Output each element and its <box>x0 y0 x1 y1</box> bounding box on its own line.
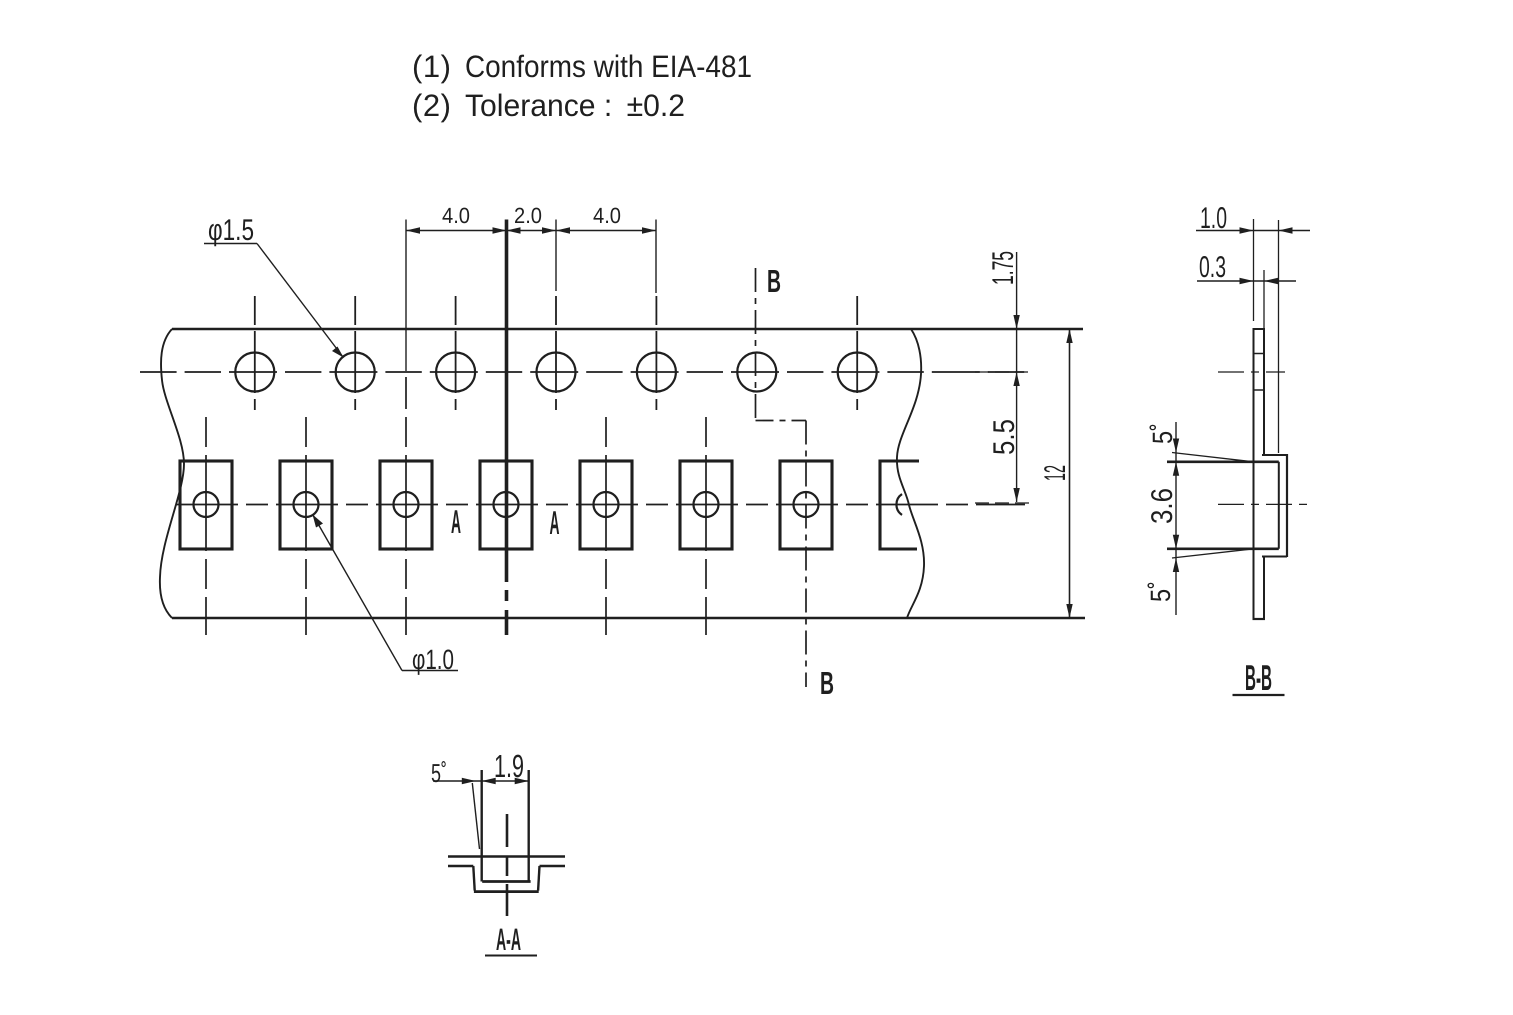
B-B emboss bottom jog <box>1262 556 1287 558</box>
A-A pocket inner bottom <box>482 880 530 883</box>
sprocket hole 2 vertical centerline <box>354 296 356 410</box>
B-B tape back face (lower) <box>1263 557 1265 619</box>
sprocket hole 4 vertical centerline <box>555 296 557 410</box>
svg-text:A: A <box>550 504 560 541</box>
svg-text:5.5: 5.5 <box>988 419 1021 455</box>
B-B draft witness line (bottom 5 deg) <box>1172 549 1254 558</box>
sprocket hole 1 vertical centerline <box>254 296 256 410</box>
B-B cavity bottom wall + extension <box>1167 547 1279 550</box>
sprocket hole 5 vertical centerline <box>655 296 657 410</box>
section line A-A (heavy vertical) <box>505 220 509 583</box>
svg-text:A: A <box>451 503 461 540</box>
right side dimension 1.75 / 5.5 <box>975 252 1031 503</box>
svg-text:12: 12 <box>1039 465 1072 481</box>
pocket 6 vertical centerline <box>705 409 707 635</box>
pocket 6 <box>680 461 732 549</box>
B-B pocket centerline <box>1218 503 1308 505</box>
A-A tape bottom surface left <box>448 865 473 867</box>
pocket 2 hole <box>294 492 319 517</box>
svg-text:4.0: 4.0 <box>593 203 621 228</box>
B-B cavity top wall + extension <box>1167 460 1279 463</box>
svg-text:5˚: 5˚ <box>1147 423 1178 444</box>
svg-text:Conforms with EIA-481: Conforms with EIA-481 <box>465 49 752 84</box>
sprocket hole 1 <box>235 353 274 392</box>
pocket 2 vertical centerline <box>305 409 307 635</box>
tape bottom edge <box>172 617 1085 619</box>
extension line (tape face) <box>1253 219 1255 321</box>
sprocket hole 4 <box>537 353 576 392</box>
pocket centerline (horizontal) <box>174 504 1025 506</box>
right break line <box>897 329 924 618</box>
B-B tape front face <box>1253 329 1255 620</box>
svg-text:2.0: 2.0 <box>514 203 542 228</box>
pocket 4 hole <box>494 492 519 517</box>
B-B tape bottom cap <box>1253 618 1266 620</box>
extension line at sprocket 5 <box>655 220 657 294</box>
A-A pocket outer bottom <box>474 890 539 893</box>
pocket 3 <box>380 461 432 549</box>
extension line (cavity inner) <box>1278 220 1280 453</box>
svg-text:5˚: 5˚ <box>431 758 447 788</box>
A-A vertical centerline <box>506 814 509 916</box>
sprocket hole 2 <box>336 353 375 392</box>
left break line <box>160 329 184 618</box>
A-A pocket outer left wall <box>473 866 474 891</box>
sprocket hole 6 <box>737 353 776 392</box>
B-B emboss outer back wall <box>1286 454 1288 557</box>
B-B emboss top jog <box>1262 454 1287 456</box>
svg-text:A-A: A-A <box>496 922 521 957</box>
svg-text:3.6: 3.6 <box>1146 488 1179 524</box>
dim line 1.0 <box>1196 230 1310 232</box>
pocket 3 hole <box>394 492 419 517</box>
B-B draft witness line (top 5 deg) <box>1172 453 1254 462</box>
B-B sprocket centerline <box>1218 371 1285 373</box>
dimension line 4.0 / 2.0 / 4.0 <box>406 230 656 232</box>
svg-text:(2): (2) <box>412 88 451 123</box>
pocket 5 vertical centerline <box>605 409 607 635</box>
A-A witness line + inner right wall (1.9) <box>528 770 530 882</box>
extension line (tape back) <box>1263 270 1265 330</box>
arrowheads top dimension <box>406 227 420 233</box>
tape top edge <box>172 328 1083 330</box>
A-A pocket outer right wall <box>538 866 539 891</box>
extension line at sprocket 4 <box>555 220 557 292</box>
svg-text:Tolerance : ±0.2: Tolerance : ±0.2 <box>465 88 685 123</box>
sprocket hole 5 <box>637 353 676 392</box>
pocket 6 hole <box>694 492 719 517</box>
svg-text:B: B <box>820 665 834 701</box>
svg-text:B: B <box>767 263 781 299</box>
B-B sprocket hole edge (top) <box>1254 353 1265 355</box>
svg-text:(1): (1) <box>412 49 451 84</box>
pocket 5 <box>580 461 632 549</box>
svg-text:5˚: 5˚ <box>1145 581 1176 602</box>
B-B cavity inner back wall <box>1278 462 1280 549</box>
pocket 7 hole <box>794 492 819 517</box>
section line B-B (top part) <box>756 268 807 687</box>
A-A dim line <box>433 780 529 782</box>
dimension 12 (overall width) <box>1069 329 1071 618</box>
pocket 7 <box>780 461 832 549</box>
A-A witness line + inner left wall (1.9) <box>481 770 483 882</box>
pocket 8 (partial at break) <box>880 461 919 549</box>
sprocket hole 7 <box>838 353 877 392</box>
pocket 1 vertical centerline <box>205 409 207 635</box>
A-A tape top surface <box>448 855 565 857</box>
pocket 1 <box>180 461 232 549</box>
B-B tape back face (upper) <box>1263 330 1265 455</box>
sprocket hole 3 <box>436 353 475 392</box>
dim line 0.3 <box>1197 280 1296 282</box>
svg-text:1.75: 1.75 <box>987 251 1020 285</box>
sprocket hole 3 vertical centerline <box>455 296 457 410</box>
svg-text:0.3: 0.3 <box>1199 251 1226 284</box>
pocket 8 hole (partial arc) <box>896 494 902 515</box>
pocket 2 <box>280 461 332 549</box>
A-A tape bottom surface right <box>540 865 566 867</box>
svg-text:φ1.5: φ1.5 <box>208 214 254 247</box>
pocket 3 centerline + extension to dimension line <box>405 220 407 372</box>
B-B sprocket hole edge (bottom) <box>1254 389 1265 391</box>
B-B tape top cap <box>1253 328 1266 330</box>
sprocket hole centerline (horizontal) <box>140 371 1028 373</box>
B-B dim stack vertical line <box>1175 422 1177 615</box>
svg-text:1.9: 1.9 <box>494 748 524 784</box>
pocket 1 hole <box>194 492 219 517</box>
sprocket hole 7 vertical centerline <box>856 296 858 410</box>
pocket 4 <box>480 461 532 549</box>
A-A draft witness line (5 deg) <box>472 783 479 849</box>
pocket 5 hole <box>594 492 619 517</box>
svg-text:4.0: 4.0 <box>442 203 470 228</box>
svg-text:B-B: B-B <box>1245 657 1272 698</box>
